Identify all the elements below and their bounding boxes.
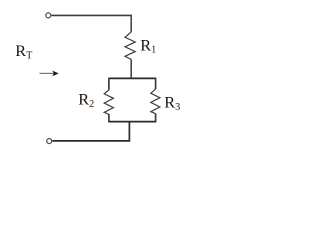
terminal top-left (46, 13, 51, 18)
wire center down from parallel block (128, 122, 130, 141)
wire top horizontal (51, 14, 131, 16)
arrow (looking-in direction) (40, 71, 59, 77)
resistor R2 (104, 78, 113, 123)
wire right vertical to R1 (130, 15, 132, 32)
wire bottom horizontal (52, 140, 130, 142)
resistor R1 (125, 32, 135, 60)
wire bottom bar of parallel block (109, 121, 156, 123)
resistor R3 (151, 78, 160, 123)
terminal bottom-left (47, 139, 52, 144)
wire R1 to parallel block (130, 59, 132, 78)
wire top bar of parallel block (109, 77, 156, 79)
